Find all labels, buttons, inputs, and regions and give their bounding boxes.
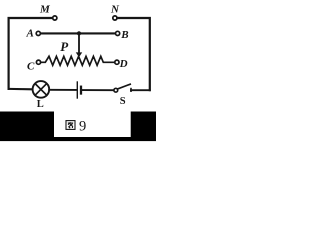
switch S — [114, 84, 131, 92]
node wiper junction — [77, 31, 81, 35]
svg-text:N: N — [110, 4, 120, 16]
lamp L — [33, 81, 50, 98]
terminal A — [36, 31, 40, 35]
svg-text:M: M — [39, 3, 51, 15]
wire switch to right corner — [131, 89, 150, 91]
wire right vertical — [117, 18, 150, 90]
terminal N — [113, 16, 117, 20]
terminal M — [53, 16, 57, 20]
svg-text:9: 9 — [79, 119, 86, 135]
svg-text:L: L — [37, 99, 44, 110]
caption white box — [54, 112, 131, 138]
caption glyph tu (figure) — [66, 121, 75, 130]
svg-text:S: S — [120, 96, 126, 107]
wire A to B — [41, 32, 116, 34]
resistor element C-D zigzag — [41, 56, 115, 65]
svg-text:C: C — [27, 61, 35, 73]
wire left vertical — [9, 18, 53, 89]
terminal C — [36, 60, 40, 64]
terminal B — [116, 31, 120, 35]
svg-text:P: P — [60, 39, 69, 54]
wire lamp to battery — [49, 89, 76, 91]
svg-text:D: D — [119, 58, 128, 70]
terminal D — [115, 60, 119, 64]
caption band background — [0, 112, 156, 142]
svg-text:A: A — [26, 27, 34, 39]
potentiometer P wiper arrow — [76, 33, 82, 57]
svg-text:B: B — [120, 29, 128, 41]
wire bottom left — [9, 88, 32, 91]
battery cell — [77, 82, 81, 98]
wire battery to switch — [82, 89, 114, 91]
